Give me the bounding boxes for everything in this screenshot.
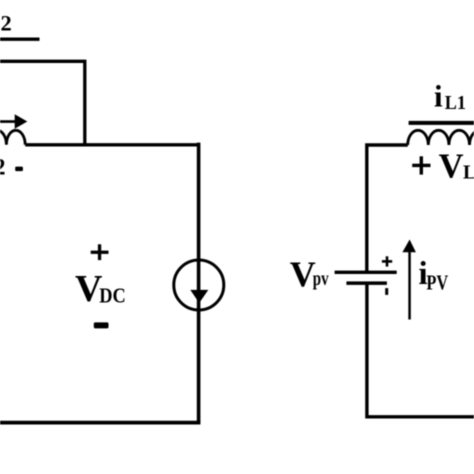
svg-text:L1: L1 [445,92,466,114]
minus of battery (small tick) [385,288,388,295]
svg-text:PV: PV [426,271,448,295]
current direction bar for iL1 [409,121,474,125]
label VDC [75,268,126,310]
battery Vpv long plate [335,271,397,274]
current arrow iL2 shaft [0,120,15,123]
svg-text:DC: DC [99,283,126,307]
current direction bar for iL2 [0,38,40,41]
current arrow iL2 head [15,114,28,129]
svg-text:V: V [439,147,464,185]
plus of VL1 [412,156,430,174]
plus of VDC [91,244,109,260]
inductor L1 (cropped at right edge) [408,130,474,145]
current source arrow head [190,290,208,303]
minus of VL2 [15,167,23,172]
current arrow iPV shaft [408,251,411,320]
svg-text:V: V [290,254,316,294]
svg-text:2: 2 [1,11,12,36]
label iPV [419,256,449,295]
label VL1 (cropped at right edge) [439,147,474,185]
current arrow iPV head [402,240,416,253]
wire top-left loop [0,61,85,145]
wire top of right fragment [367,145,408,272]
wire middle horizontal left fragment [25,143,198,146]
svg-text:L1: L1 [463,162,474,184]
svg-text:2: 2 [0,155,6,180]
wire bottom of left fragment [0,421,200,425]
inductor L2 (cropped at left edge) [0,130,25,145]
svg-text:pv: pv [313,268,329,290]
wire right branch of left fragment [197,143,201,423]
minus of VDC [94,322,109,328]
label Vpv [290,254,329,294]
svg-text:i: i [434,79,443,114]
current source circle [174,260,224,310]
plus of battery [382,256,392,266]
label iL1 [434,79,466,115]
battery Vpv short plate [346,281,387,285]
wire bottom of right fragment [367,283,474,417]
